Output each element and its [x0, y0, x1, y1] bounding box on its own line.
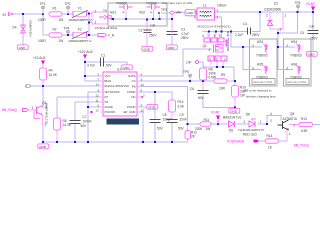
power +12V AUX (VCC)	[78, 50, 94, 58]
svg-text:L1: L1	[203, 4, 207, 8]
resistor R2	[38, 28, 63, 43]
svg-text:C3D02060E: C3D02060E	[264, 8, 281, 12]
wire CS row y81	[137, 80, 214, 82]
svg-text:3: 3	[252, 67, 254, 71]
svg-text:RT: RT	[105, 95, 109, 99]
ground GND (C2)	[142, 46, 153, 51]
varistor HS1	[110, 1, 133, 14]
wire COMP row	[137, 92, 172, 100]
wire row2 F2 to net arrow F_N	[86, 34, 98, 36]
wire VCC pin feed	[85, 75, 103, 77]
svg-text:4: 4	[209, 48, 211, 52]
svg-text:250V: 250V	[181, 36, 189, 40]
wire R9 to shunt	[228, 80, 235, 82]
capacitor C7	[70, 115, 92, 128]
U1 left pin stubs	[101, 76, 104, 112]
U1 part number highlight	[107, 119, 140, 125]
junction (43,142)	[42, 141, 44, 143]
svg-text:NC: NC	[131, 95, 135, 99]
wire TP6 stub	[297, 8, 299, 12]
wire HS3 feed	[231, 32, 262, 48]
svg-text:1uF: 1uF	[150, 24, 156, 28]
svg-text:4.7uF: 4.7uF	[87, 64, 95, 68]
junction (159.5,19)	[158, 18, 160, 20]
wire BIAS pin feed	[85, 80, 103, 82]
svg-text:+12 AUX: +12 AUX	[33, 56, 47, 60]
svg-text:1: 1	[95, 10, 97, 14]
capacitor C3	[167, 27, 190, 40]
svg-text:50V: 50V	[178, 127, 185, 131]
svg-text:3: 3	[280, 28, 282, 32]
wire AGND pin feed	[88, 106, 103, 108]
junction (216,31.5)	[215, 30, 217, 32]
svg-text:5.9K: 5.9K	[301, 129, 308, 133]
wire VCAP cap C5 lead	[312, 12, 314, 30]
svg-text:COMP: COMP	[127, 90, 136, 94]
svg-text:SS: SS	[105, 100, 109, 104]
svg-text:10: 10	[141, 83, 145, 87]
svg-text:Alternate part of HS1: Alternate part of HS1	[162, 1, 193, 5]
resistor R1	[38, 7, 63, 22]
svg-text:D6: D6	[246, 113, 250, 117]
transistor Q5	[270, 112, 298, 136]
junction (187.5,124)	[186, 123, 188, 125]
svg-text:2: 2	[270, 119, 272, 123]
svg-text:GND: GND	[143, 47, 151, 51]
wire L1 pin2 drop to bus	[214, 17, 222, 32]
varistor HS5	[252, 63, 268, 80]
svg-text:100R: 100R	[38, 39, 46, 43]
testpoint TP5	[183, 70, 191, 77]
pin Mtr_Puls	[2, 108, 29, 112]
svg-text:1uF: 1uF	[309, 24, 315, 28]
wire RT chain x57	[57, 96, 103, 98]
svg-text:100uH: 100uH	[217, 4, 227, 8]
net arrow F_N	[98, 34, 115, 38]
svg-text:1nF: 1nF	[186, 60, 192, 64]
svg-text:3: 3	[209, 57, 211, 61]
svg-text:13: 13	[96, 108, 100, 112]
wire R15 to C9	[171, 112, 173, 119]
svg-text:TVB003: TVB003	[256, 76, 268, 80]
wire F1 to relay junction	[86, 13, 92, 15]
svg-text:250V: 250V	[252, 33, 260, 37]
junction (43,86)	[42, 85, 44, 87]
junction (235,107.5)	[234, 106, 236, 108]
resistor R10 shunt	[232, 86, 247, 98]
alternate box HS3	[250, 39, 278, 86]
svg-text:shorten charging time: shorten charging time	[246, 94, 276, 98]
svg-text:2: 2	[216, 57, 218, 61]
svg-text:TP5: TP5	[183, 70, 189, 74]
junction (172,142)	[171, 141, 173, 143]
svg-text:C9: C9	[180, 113, 184, 117]
junction (43,14)	[42, 13, 44, 15]
junction (153,19)	[152, 18, 154, 20]
resistor R5	[54, 118, 72, 130]
junction (231,31.5)	[230, 30, 232, 32]
wire TP5 stub	[189, 77, 191, 81]
svg-text:3: 3	[286, 44, 288, 48]
svg-text:3: 3	[194, 11, 196, 15]
wire C3 bottom lead	[171, 36, 173, 45]
svg-text:2.2uF: 2.2uF	[235, 33, 243, 37]
varistor HS3	[252, 40, 268, 57]
svg-text:HS4: HS4	[291, 40, 297, 44]
svg-text:TV8000: TV8000	[116, 1, 127, 5]
svg-text:TVB003: TVB003	[290, 76, 302, 80]
junction (75,142)	[74, 141, 76, 143]
svg-text:MSE 750815208: MSE 750815208	[226, 31, 230, 52]
svg-text:EP_GND: EP_GND	[124, 110, 136, 114]
ground GND (C1)	[121, 65, 132, 70]
junction (155,142)	[154, 141, 156, 143]
wire SD pin feed	[88, 91, 103, 93]
svg-text:FB: FB	[132, 85, 136, 89]
wire C4 to top rail riser	[252, 12, 260, 32]
note RB reduce	[244, 88, 276, 98]
svg-text:R14: R14	[267, 134, 273, 138]
wire row2 R2 to F2	[62, 34, 73, 36]
svg-text:3: 3	[252, 44, 254, 48]
junction (190,81)	[189, 80, 191, 82]
wire TP3 stub	[161, 12, 169, 14]
transformer T1 bottom pin boxes	[208, 56, 227, 61]
svg-text:50V: 50V	[81, 124, 88, 128]
svg-text:15: 15	[141, 108, 145, 112]
junction (278,47)	[277, 46, 279, 48]
svg-text:VCC: VCC	[105, 74, 111, 78]
svg-text:AGND: AGND	[105, 105, 113, 109]
junction (89,13.5)	[88, 12, 90, 14]
relay contact box SW1	[92, 12, 108, 24]
svg-text:MMBT4401LT1G: MMBT4401LT1G	[45, 103, 49, 124]
ground GND (C5)	[306, 51, 317, 56]
svg-text:1: 1	[289, 132, 291, 136]
wire Q4 base feed	[28, 109, 35, 111]
junction (126,19)	[125, 18, 127, 20]
svg-text:U1: U1	[117, 67, 121, 71]
wire C1 row y62	[85, 61, 100, 63]
svg-text:10.0K: 10.0K	[49, 73, 58, 77]
testpoint TP2	[65, 2, 71, 14]
diode D5	[223, 116, 242, 133]
svg-text:HS2: HS2	[139, 10, 145, 14]
wire ground rail y142	[43, 141, 188, 143]
testpoint TP6	[295, 1, 301, 8]
capacitor C2	[139, 20, 158, 47]
svg-text:1W: 1W	[240, 94, 245, 98]
svg-text:Q1: Q1	[203, 44, 207, 48]
pin IN	[3, 13, 14, 17]
junction (297.5,12)	[296, 11, 298, 13]
wire L1 pin1 main top rail y12	[214, 11, 313, 13]
transistor Q4	[32, 101, 49, 127]
svg-text:22nF: 22nF	[180, 118, 187, 122]
svg-text:12: 12	[96, 93, 100, 97]
wire Q5 emitter down	[286, 130, 288, 141]
transformer T1 pin numbers bottom	[209, 57, 226, 61]
IC U1	[103, 67, 137, 116]
ground GND (C3)	[166, 45, 177, 50]
svg-text:GND: GND	[39, 145, 47, 149]
svg-text:HS5: HS5	[257, 63, 263, 67]
svg-text:50V: 50V	[106, 64, 113, 68]
power VCAP (fb)	[211, 111, 220, 124]
power VCAP	[306, 2, 315, 11]
junction (23,14)	[22, 13, 24, 15]
svg-text:C3: C3	[181, 27, 185, 31]
svg-text:4.7uF: 4.7uF	[181, 32, 189, 36]
svg-text:VAF: VAF	[176, 11, 182, 15]
ground GND (shunt)	[229, 108, 240, 113]
wire PGND feed	[137, 106, 146, 108]
svg-text:11: 11	[96, 98, 99, 102]
junction (155,92)	[154, 91, 156, 93]
wire snubber pin jog	[199, 62, 203, 67]
capacitor C9	[167, 113, 187, 130]
svg-text:Q5: Q5	[290, 112, 294, 116]
wire relay output bus y19	[108, 18, 114, 20]
svg-text:2: 2	[217, 15, 219, 19]
junction (143,142)	[142, 141, 144, 143]
svg-text:R1: R1	[53, 7, 57, 11]
wire row1 R1 to F1	[62, 13, 73, 15]
svg-text:AZ766T/A: AZ766T/A	[283, 117, 298, 121]
junction (88,107)	[87, 106, 89, 108]
junction (57,142)	[56, 141, 58, 143]
svg-text:2: 2	[95, 20, 97, 24]
svg-text:ENA/UL/DIS/SYNC: ENA/UL/DIS/SYNC	[105, 84, 130, 88]
wire C8 chain x155	[154, 92, 156, 119]
svg-text:C8: C8	[163, 113, 167, 117]
resistor R14	[265, 134, 279, 150]
svg-text:4: 4	[194, 16, 196, 20]
wire FB drop x187	[137, 87, 188, 125]
svg-text:3: 3	[110, 15, 112, 19]
U1 pin numbers right	[141, 72, 146, 112]
wire D4 bottom lead to ground	[22, 34, 24, 46]
capacitor C8	[150, 113, 172, 130]
svg-text:TVB003: TVB003	[256, 54, 268, 58]
wire input row1	[13, 13, 43, 15]
svg-text:HS3: HS3	[257, 40, 263, 44]
svg-text:100nF: 100nF	[83, 120, 92, 124]
svg-text:Mtr_Puls(): Mtr_Puls()	[2, 108, 17, 112]
junction (88,142)	[87, 141, 89, 143]
diode D1 loop	[264, 2, 287, 32]
wire ENA row y86	[31, 85, 103, 87]
svg-text:HS1: HS1	[110, 10, 116, 14]
svg-text:SZRED268PPT-V: SZRED268PPT-V	[69, 39, 92, 43]
svg-text:TP1: TP1	[40, 2, 46, 6]
svg-text:250V: 250V	[149, 34, 157, 38]
svg-text:C6: C6	[190, 87, 194, 91]
wire EP_GND drop	[137, 112, 143, 142]
junction (68,35)	[67, 34, 69, 36]
svg-text:D4: D4	[13, 26, 17, 30]
transformer T1 pin numbers top	[202, 34, 221, 38]
svg-text:1/S-9Z+L28-WGH: 1/S-9Z+L28-WGH	[95, 26, 117, 30]
U1 right pin stubs	[137, 76, 141, 112]
junction (85,76)	[84, 75, 86, 77]
svg-text:1W: 1W	[59, 39, 64, 43]
svg-text:CS: CS	[131, 79, 135, 83]
wire SS chain x75	[75, 101, 103, 103]
wire T1 top stubs	[208, 32, 222, 39]
svg-text:VCAP: VCAP	[211, 111, 220, 115]
junction (221.5,31.5)	[220, 30, 222, 32]
svg-text:D5: D5	[229, 129, 233, 133]
wire HS1 lead	[125, 9, 127, 19]
svg-text:GATE: GATE	[128, 74, 136, 78]
resistor R13	[299, 117, 313, 133]
svg-text:6: 6	[214, 34, 216, 38]
svg-text:TP2: TP2	[65, 2, 71, 6]
resistor R9	[214, 73, 227, 90]
svg-text:GND: GND	[230, 109, 238, 113]
svg-text:2: 2	[266, 13, 268, 17]
svg-text:1: 1	[260, 120, 262, 124]
svg-text:VCAP: VCAP	[306, 2, 315, 6]
junction (203,81)	[202, 80, 204, 82]
svg-text:2: 2	[244, 120, 246, 124]
svg-text:LM5023MM/NOPB: LM5023MM/NOPB	[108, 120, 135, 124]
svg-text:TP6: TP6	[295, 1, 301, 5]
wire Q4 collector riser	[42, 86, 44, 108]
junction (217,67)	[216, 66, 218, 68]
U1 pin numbers left	[96, 72, 100, 112]
svg-text:GND: GND	[308, 52, 316, 56]
ground GND (PGND)	[147, 104, 158, 109]
testpoint TP3	[158, 8, 167, 14]
wire +12aux1 resistor R4	[42, 64, 44, 68]
junction (260,12)	[259, 11, 261, 13]
wire shunt leads	[234, 81, 236, 86]
wire D1 bottom node	[278, 12, 298, 33]
svg-text:F1: F1	[78, 7, 82, 11]
svg-text:D1: D1	[274, 2, 278, 6]
U1 PGOOD NC marker	[91, 111, 93, 113]
svg-text:1: 1	[285, 13, 287, 17]
svg-text:F_N: F_N	[108, 34, 115, 38]
varistor HS2	[139, 1, 160, 14]
svg-text:R13: R13	[301, 117, 307, 121]
resistor R11	[195, 118, 211, 131]
svg-text:BAS21HT1G: BAS21HT1G	[223, 116, 242, 120]
svg-text:C4: C4	[243, 22, 247, 26]
svg-text:GND: GND	[123, 66, 131, 70]
wire feedback row y124	[188, 123, 201, 125]
svg-text:GND: GND	[186, 11, 194, 15]
alternate box HS4/HS6	[284, 39, 312, 86]
svg-text:+12V AUX: +12V AUX	[78, 50, 94, 54]
power +12V AUX (R4)	[33, 56, 47, 64]
wire gate riser	[137, 49, 212, 76]
svg-text:GND: GND	[148, 105, 156, 109]
svg-text:4: 4	[202, 34, 204, 38]
wire HS2 lead	[153, 9, 155, 19]
junction (89,35)	[88, 34, 90, 36]
snubber pin circle	[186, 60, 199, 64]
led D6	[238, 113, 264, 137]
svg-text:F2: F2	[78, 28, 82, 32]
mosfet Q1	[203, 44, 224, 53]
svg-text:PGND: PGND	[127, 105, 135, 109]
wire Q5 output row	[289, 124, 299, 126]
wire HS6 feed	[278, 47, 293, 70]
resistor R12	[185, 131, 197, 140]
wire +12aux2 vertical	[84, 58, 86, 81]
wire HS5 feed	[243, 47, 261, 70]
junction (89,22.5)	[88, 21, 90, 23]
capacitor C1	[87, 53, 113, 67]
junction (223,67)	[222, 66, 224, 68]
svg-text:S1MB0710CA: S1MB0710CA	[29, 20, 33, 37]
svg-text:BIAS: BIAS	[105, 79, 112, 83]
junction (313,12)	[312, 11, 314, 13]
svg-text:C2: C2	[139, 29, 143, 33]
svg-text:4: 4	[270, 112, 272, 116]
wire snubber top row y67	[203, 67, 234, 81]
svg-text:Mtr_Puls(): Mtr_Puls()	[294, 144, 309, 148]
svg-text:TVB003: TVB003	[290, 54, 302, 58]
junction (112.7,19)	[112, 18, 114, 20]
svg-text:HS6: HS6	[291, 63, 297, 67]
varistor HS4	[286, 40, 302, 57]
choke L1	[194, 4, 227, 20]
svg-text:1W: 1W	[59, 18, 64, 22]
wire vertical F-tie x89	[88, 14, 90, 36]
wire C3 top stub	[171, 15, 173, 31]
svg-text:C7: C7	[83, 115, 87, 119]
svg-text:RB to be reduced to: RB to be reduced to	[244, 88, 272, 92]
TVS D4	[13, 20, 33, 37]
capacitor C4 series	[235, 22, 260, 37]
wire Q4 emitter chain	[42, 126, 44, 142]
wire bead row to L1 pin3	[174, 12, 185, 14]
caption box Alternate of HS3	[252, 79, 275, 85]
svg-text:R2: R2	[53, 28, 57, 32]
wire row2 from x43	[43, 14, 49, 35]
svg-text:R11: R11	[204, 118, 210, 122]
svg-text:7: 7	[208, 34, 210, 38]
fuse F1	[69, 7, 92, 22]
svg-text:R9: R9	[221, 73, 225, 77]
junction (267,124)	[266, 123, 268, 125]
net diamond VAF	[170, 11, 182, 15]
junction (209,31.5)	[208, 30, 210, 32]
net label IC7	[227, 139, 259, 143]
wire AGND chain x88	[87, 92, 89, 142]
svg-text:TLHK4201GRPGTX: TLHK4201GRPGTX	[238, 128, 264, 132]
svg-text:SD/TH/OFF: SD/TH/OFF	[105, 90, 120, 94]
svg-text:RED LED: RED LED	[243, 132, 258, 136]
testpoint TP4	[64, 27, 70, 34]
svg-text:Alternate of HS3: Alternate of HS3	[253, 80, 273, 84]
junction (235,81)	[234, 80, 236, 82]
svg-text:C4: C4	[300, 31, 304, 35]
svg-text:R15: R15	[178, 100, 184, 104]
bead FB1	[185, 10, 196, 16]
relay contact SW	[95, 9, 113, 25]
junction (278,33)	[277, 32, 279, 34]
junction (68,14)	[67, 13, 69, 15]
caption box Alternate of HS4	[286, 79, 309, 85]
svg-text:1: 1	[224, 57, 226, 61]
resistor R8	[200, 67, 217, 80]
svg-text:5: 5	[219, 34, 221, 38]
